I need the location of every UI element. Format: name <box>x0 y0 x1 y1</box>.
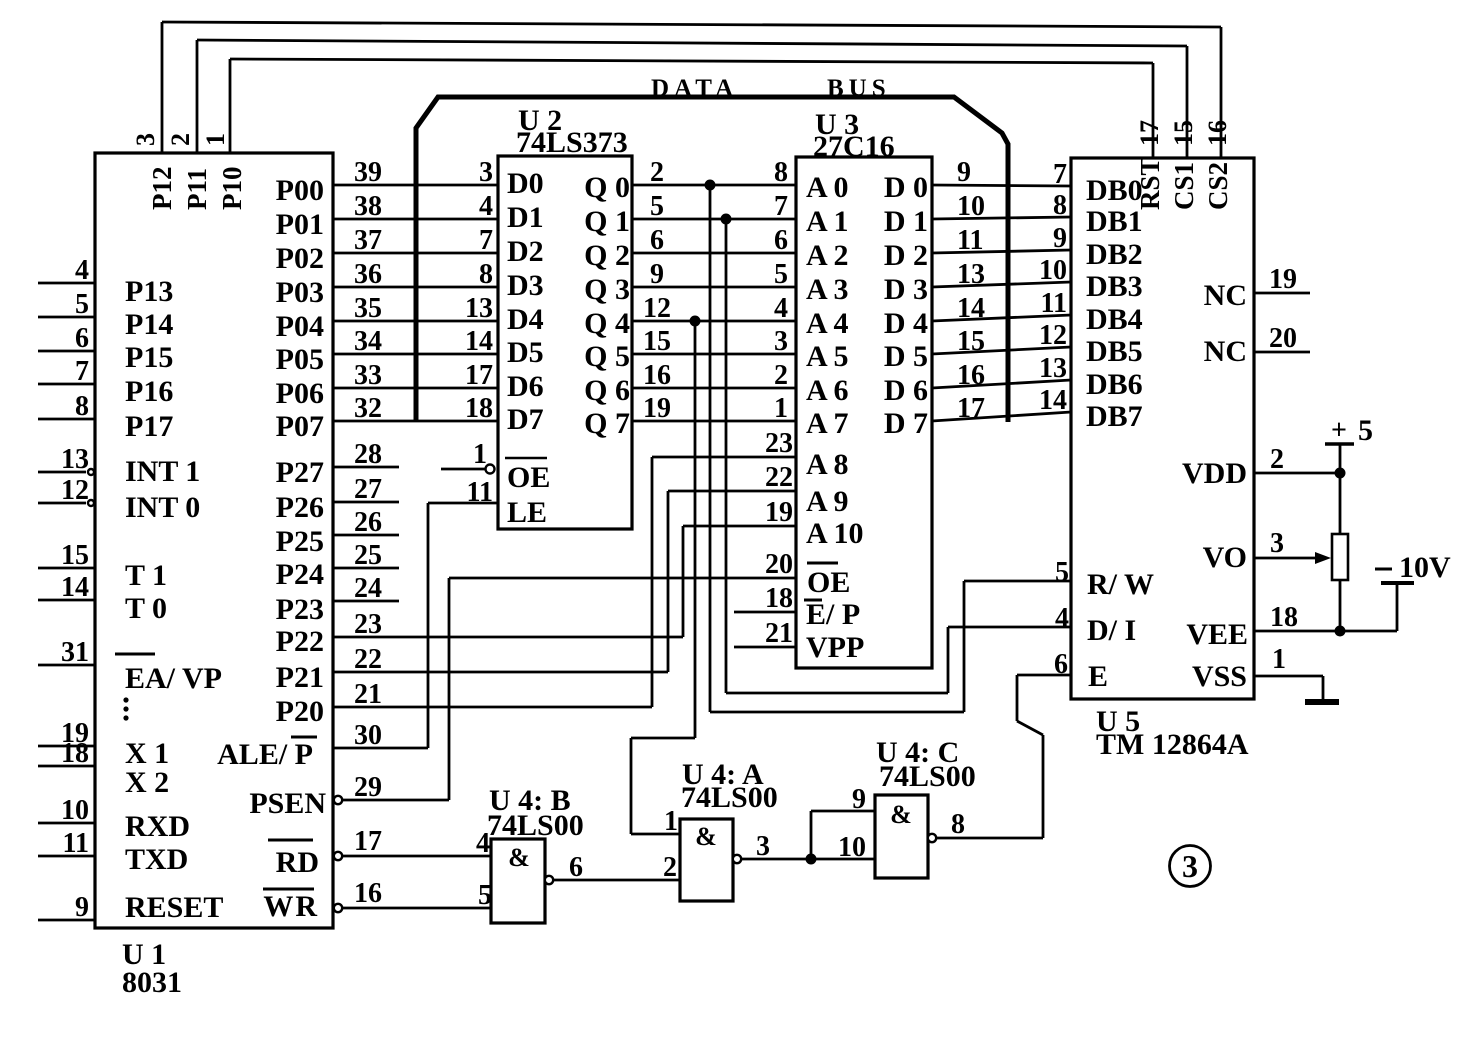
svg-text:DB5: DB5 <box>1086 335 1143 368</box>
svg-text:CS2: CS2 <box>1203 162 1233 210</box>
svg-text:5: 5 <box>774 259 788 290</box>
svg-text:A 9: A 9 <box>806 485 849 518</box>
svg-text:24: 24 <box>354 573 382 604</box>
svg-text:P15: P15 <box>125 341 173 374</box>
svg-text:14: 14 <box>957 293 985 324</box>
svg-text:14: 14 <box>61 572 89 603</box>
svg-text:4: 4 <box>1055 603 1069 634</box>
svg-text:VDD: VDD <box>1182 457 1247 490</box>
svg-text:35: 35 <box>354 293 382 324</box>
svg-text:TM 12864A: TM 12864A <box>1096 728 1249 761</box>
svg-text:10: 10 <box>1039 255 1067 286</box>
svg-text:19: 19 <box>643 393 671 424</box>
svg-text:17: 17 <box>957 393 985 424</box>
svg-text:P10: P10 <box>217 167 247 211</box>
svg-text:Q 4: Q 4 <box>584 307 630 340</box>
svg-text:74LS00: 74LS00 <box>681 781 778 814</box>
svg-text:22: 22 <box>354 644 382 675</box>
svg-text:Q 6: Q 6 <box>584 374 630 407</box>
svg-text:P17: P17 <box>125 410 173 443</box>
svg-text:27C16: 27C16 <box>813 130 895 163</box>
svg-text:DB3: DB3 <box>1086 270 1143 303</box>
svg-text:1: 1 <box>664 806 678 837</box>
svg-text:34: 34 <box>354 326 382 357</box>
svg-text:7: 7 <box>75 356 89 387</box>
svg-text:VEE: VEE <box>1186 618 1248 651</box>
svg-text:28: 28 <box>354 439 382 470</box>
svg-text:A 4: A 4 <box>806 307 849 340</box>
svg-text:A 3: A 3 <box>806 273 849 306</box>
svg-text:INT 1: INT 1 <box>125 455 200 488</box>
svg-text:E/ P: E/ P <box>806 598 860 631</box>
svg-text:2: 2 <box>166 133 195 146</box>
svg-text:RESET: RESET <box>125 891 223 924</box>
svg-text:&: & <box>508 843 530 872</box>
svg-text:DB2: DB2 <box>1086 238 1143 271</box>
svg-text:1: 1 <box>774 393 788 424</box>
svg-text:1: 1 <box>1272 644 1286 675</box>
svg-text:13: 13 <box>1039 353 1067 384</box>
svg-text:6: 6 <box>569 852 583 883</box>
svg-text:21: 21 <box>354 679 382 710</box>
svg-text:Q 5: Q 5 <box>584 340 630 373</box>
svg-text:6: 6 <box>1054 649 1068 680</box>
svg-text:15: 15 <box>1169 120 1198 146</box>
svg-text:19: 19 <box>765 497 793 528</box>
svg-text:74LS00: 74LS00 <box>487 809 584 842</box>
svg-text:12: 12 <box>643 293 671 324</box>
svg-text:39: 39 <box>354 157 382 188</box>
svg-text:Q 3: Q 3 <box>584 273 630 306</box>
svg-text:P16: P16 <box>125 375 173 408</box>
svg-text:Q 7: Q 7 <box>584 407 630 440</box>
svg-text:9: 9 <box>650 259 664 290</box>
svg-text:11: 11 <box>957 225 983 256</box>
svg-text:23: 23 <box>765 428 793 459</box>
svg-text:D 4: D 4 <box>884 307 928 340</box>
svg-text:TXD: TXD <box>125 843 188 876</box>
svg-text:D2: D2 <box>507 235 544 268</box>
svg-text:16: 16 <box>354 878 382 909</box>
svg-text:74LS373: 74LS373 <box>516 126 628 159</box>
svg-text:INT 0: INT 0 <box>125 491 200 524</box>
svg-text:P13: P13 <box>125 275 173 308</box>
svg-text:D3: D3 <box>507 269 544 302</box>
svg-text:1: 1 <box>201 133 230 146</box>
svg-text:P01: P01 <box>276 208 324 241</box>
svg-text:A 6: A 6 <box>806 374 849 407</box>
svg-text:32: 32 <box>354 393 382 424</box>
svg-text:4: 4 <box>774 293 788 324</box>
svg-text:P11: P11 <box>182 168 212 210</box>
svg-text:10: 10 <box>838 832 866 863</box>
svg-text:14: 14 <box>465 326 493 357</box>
svg-text:P27: P27 <box>276 456 324 489</box>
svg-text:7: 7 <box>774 191 788 222</box>
svg-text:16: 16 <box>957 360 985 391</box>
svg-text:Q 1: Q 1 <box>584 205 630 238</box>
svg-text:1: 1 <box>473 439 487 470</box>
svg-text:PSEN: PSEN <box>249 787 326 820</box>
svg-text:P23: P23 <box>276 593 324 626</box>
svg-text:NC: NC <box>1204 335 1247 368</box>
svg-text:27: 27 <box>354 474 382 505</box>
svg-text:OE: OE <box>507 461 550 494</box>
svg-text:R/ W: R/ W <box>1087 568 1154 601</box>
svg-text:8031: 8031 <box>122 966 182 999</box>
svg-text:30: 30 <box>354 720 382 751</box>
svg-text:&: & <box>890 800 912 829</box>
svg-text:P24: P24 <box>276 558 324 591</box>
svg-text:P22: P22 <box>276 625 324 658</box>
svg-text:T 0: T 0 <box>125 592 167 625</box>
svg-text:OE: OE <box>807 566 850 599</box>
svg-text:A 5: A 5 <box>806 340 849 373</box>
svg-text:Q 2: Q 2 <box>584 239 630 272</box>
svg-text:+: + <box>1331 415 1347 446</box>
svg-text:3: 3 <box>1182 848 1198 884</box>
svg-text:EA/ VP: EA/ VP <box>125 662 222 695</box>
svg-text:38: 38 <box>354 191 382 222</box>
svg-text:8: 8 <box>75 391 89 422</box>
svg-text:E: E <box>1088 660 1108 693</box>
svg-text:D0: D0 <box>507 167 544 200</box>
svg-text:5: 5 <box>75 289 89 320</box>
svg-text:17: 17 <box>1135 120 1164 146</box>
svg-text:DATA: DATA <box>651 75 738 102</box>
svg-text:14: 14 <box>1039 385 1067 416</box>
svg-text:NC: NC <box>1204 279 1247 312</box>
svg-text:P25: P25 <box>276 525 324 558</box>
svg-text:D 6: D 6 <box>884 374 928 407</box>
svg-text:P03: P03 <box>276 276 324 309</box>
svg-text:16: 16 <box>1203 120 1232 146</box>
svg-text:16: 16 <box>643 360 671 391</box>
svg-text:25: 25 <box>354 540 382 571</box>
svg-text:2: 2 <box>1270 444 1284 475</box>
svg-text:18: 18 <box>465 393 493 424</box>
svg-text:D7: D7 <box>507 403 544 436</box>
svg-text:DB7: DB7 <box>1086 400 1143 433</box>
svg-text:5: 5 <box>478 880 492 911</box>
svg-text:X 2: X 2 <box>125 766 169 799</box>
svg-text:RD: RD <box>276 846 319 879</box>
svg-text:BUS: BUS <box>827 75 891 102</box>
svg-text:74LS00: 74LS00 <box>879 760 976 793</box>
svg-text:22: 22 <box>765 462 793 493</box>
svg-text:2: 2 <box>663 852 677 883</box>
svg-text:D 3: D 3 <box>884 273 928 306</box>
svg-text:D 0: D 0 <box>884 171 928 204</box>
svg-text:5: 5 <box>1358 414 1373 447</box>
svg-text:P07: P07 <box>276 410 324 443</box>
svg-text:21: 21 <box>765 618 793 649</box>
svg-text:4: 4 <box>479 191 493 222</box>
svg-text:37: 37 <box>354 225 382 256</box>
svg-text:P00: P00 <box>276 174 324 207</box>
svg-text:D/ I: D/ I <box>1087 614 1136 647</box>
svg-text:15: 15 <box>957 326 985 357</box>
svg-text:P05: P05 <box>276 343 324 376</box>
svg-text:10: 10 <box>957 191 985 222</box>
svg-text:9: 9 <box>852 784 866 815</box>
svg-text:VPP: VPP <box>806 631 864 664</box>
svg-text:17: 17 <box>354 826 382 857</box>
svg-text:10: 10 <box>61 795 89 826</box>
svg-text:D1: D1 <box>507 201 544 234</box>
svg-text:Q 0: Q 0 <box>584 171 630 204</box>
svg-text:A 0: A 0 <box>806 171 849 204</box>
svg-text:3: 3 <box>479 157 493 188</box>
svg-text:11: 11 <box>1041 288 1067 319</box>
svg-text:9: 9 <box>1053 223 1067 254</box>
svg-text:P21: P21 <box>276 661 324 694</box>
svg-text:11: 11 <box>467 477 493 508</box>
svg-text:DB6: DB6 <box>1086 368 1143 401</box>
svg-text:13: 13 <box>465 293 493 324</box>
svg-text:6: 6 <box>75 323 89 354</box>
svg-text:29: 29 <box>354 772 382 803</box>
svg-text:P02: P02 <box>276 242 324 275</box>
svg-text:WR: WR <box>263 890 319 923</box>
svg-text:8: 8 <box>1053 190 1067 221</box>
svg-text:10V: 10V <box>1399 551 1451 584</box>
svg-text:DB1: DB1 <box>1086 205 1143 238</box>
svg-text:15: 15 <box>61 540 89 571</box>
svg-text:26: 26 <box>354 507 382 538</box>
svg-text:LE: LE <box>507 496 547 529</box>
svg-text:P12: P12 <box>147 167 177 211</box>
svg-text:VSS: VSS <box>1192 660 1247 693</box>
svg-text:7: 7 <box>1053 159 1067 190</box>
svg-text:12: 12 <box>1039 320 1067 351</box>
svg-text:D5: D5 <box>507 336 544 369</box>
svg-text:23: 23 <box>354 609 382 640</box>
svg-text:6: 6 <box>650 225 664 256</box>
svg-text:33: 33 <box>354 360 382 391</box>
svg-text:7: 7 <box>479 225 493 256</box>
svg-text:9: 9 <box>957 157 971 188</box>
svg-text:A 1: A 1 <box>806 205 849 238</box>
svg-text:15: 15 <box>643 326 671 357</box>
svg-text:D 5: D 5 <box>884 340 928 373</box>
svg-text:ALE/ P: ALE/ P <box>217 738 313 771</box>
svg-text:DB0: DB0 <box>1086 174 1143 207</box>
svg-text:P06: P06 <box>276 377 324 410</box>
svg-text:3: 3 <box>1270 528 1284 559</box>
svg-text:P04: P04 <box>276 310 324 343</box>
svg-text:17: 17 <box>465 360 493 391</box>
svg-text:DB4: DB4 <box>1086 303 1143 336</box>
svg-text:3: 3 <box>131 133 160 146</box>
svg-text:D6: D6 <box>507 370 544 403</box>
svg-text:31: 31 <box>61 637 89 668</box>
svg-text:P20: P20 <box>276 695 324 728</box>
svg-text:8: 8 <box>774 157 788 188</box>
svg-text:13: 13 <box>61 444 89 475</box>
svg-text:P14: P14 <box>125 308 173 341</box>
svg-text:A 7: A 7 <box>806 407 849 440</box>
svg-text:8: 8 <box>951 809 965 840</box>
svg-text:20: 20 <box>1269 323 1297 354</box>
svg-text:13: 13 <box>957 259 985 290</box>
svg-text:A 8: A 8 <box>806 448 849 481</box>
svg-text:D4: D4 <box>507 303 544 336</box>
svg-text:36: 36 <box>354 259 382 290</box>
svg-text:2: 2 <box>650 157 664 188</box>
svg-text:RXD: RXD <box>125 810 190 843</box>
svg-text:6: 6 <box>774 225 788 256</box>
svg-text:T 1: T 1 <box>125 559 167 592</box>
svg-text:CS1: CS1 <box>1169 162 1199 210</box>
svg-text:VO: VO <box>1203 541 1247 574</box>
svg-text:P26: P26 <box>276 491 324 524</box>
svg-text:&: & <box>695 822 717 851</box>
svg-text:A 2: A 2 <box>806 239 849 272</box>
svg-text:5: 5 <box>650 191 664 222</box>
svg-text:2: 2 <box>774 360 788 391</box>
svg-text:18: 18 <box>1270 602 1298 633</box>
svg-text:3: 3 <box>756 831 770 862</box>
svg-text:20: 20 <box>765 549 793 580</box>
svg-text:12: 12 <box>61 475 89 506</box>
svg-text:11: 11 <box>63 828 89 859</box>
svg-text:D 2: D 2 <box>884 239 928 272</box>
svg-text:D 1: D 1 <box>884 205 928 238</box>
svg-text:8: 8 <box>479 259 493 290</box>
svg-text:A 10: A 10 <box>806 517 864 550</box>
svg-text:D 7: D 7 <box>884 407 928 440</box>
svg-text:4: 4 <box>75 255 89 286</box>
svg-text:19: 19 <box>1269 264 1297 295</box>
svg-text:18: 18 <box>61 738 89 769</box>
svg-text:9: 9 <box>75 892 89 923</box>
svg-text:5: 5 <box>1055 557 1069 588</box>
svg-text:18: 18 <box>765 583 793 614</box>
svg-text:3: 3 <box>774 326 788 357</box>
